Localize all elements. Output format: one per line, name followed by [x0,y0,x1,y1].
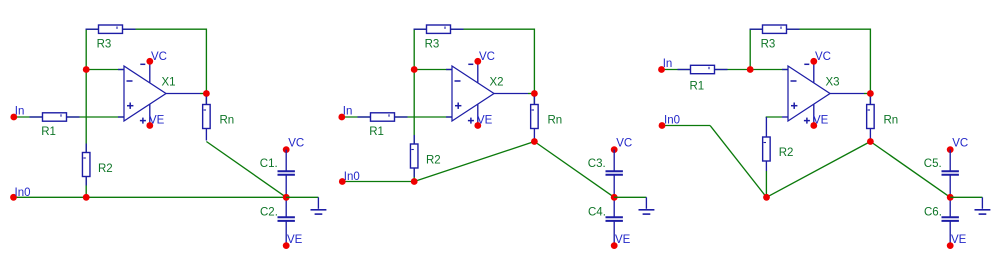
op-amp X3 plus sign at VE pin [804,120,810,122]
VC supply node dot above C3 [611,146,618,153]
svg-text:In0: In0 [664,114,680,126]
capacitor C2 [285,197,287,217]
svg-text:R2: R2 [98,163,113,175]
capacitor junction node dot (circuit 2) [611,194,618,201]
svg-text:C3.: C3. [588,158,606,170]
svg-text:C4.: C4. [588,207,606,219]
svg-text:In0: In0 [344,171,360,183]
svg-text:VC: VC [952,138,968,150]
op-amp X2 plus sign at VE pin [468,120,474,122]
VC supply node dot of X1 [146,58,153,65]
wire: feedback node to inverting input (circuit 3) [750,69,788,71]
resistor R1 (circuit 3) [678,69,691,71]
ground symbol (circuit 1) [317,197,319,209]
svg-text:R2: R2 [426,155,441,167]
wire: In port through R1 to non-inverting input (circuit 1) [14,116,124,118]
svg-text:VC: VC [288,138,304,150]
ground symbol (circuit 3) [981,197,983,209]
wire junction to ground (circuit 2) [614,196,646,198]
output node dot (circuit 3) [867,90,874,97]
svg-text:In: In [663,58,673,70]
ground symbol (circuit 2) [645,197,647,209]
op-amp X3 VE supply pin [813,105,815,126]
VC supply node dot of X2 [474,58,481,65]
capacitor junction node dot (circuit 3) [947,194,954,201]
junction dot at Rn bottom (circuit 2) [531,138,538,145]
feedback node dot (circuit 1) [83,66,90,73]
op-amp X1 [124,66,166,121]
op-amp X2 inverting input pin stub [446,69,452,71]
op-amp X1 VC supply pin [149,61,151,82]
In0 port dot (circuit 2) [339,178,346,185]
svg-text:C2.: C2. [260,207,278,219]
resistor R2 (circuit 2) [413,135,415,144]
svg-text:R3: R3 [425,39,440,51]
VE supply node dot below C4 [611,242,618,249]
VE supply node dot below C2 [283,242,290,249]
svg-text:C1.: C1. [260,158,278,170]
op-amp X2 VE supply pin [477,105,479,126]
wire: In0 row (circuit 1) [14,196,287,198]
svg-text:VE: VE [477,115,493,127]
svg-text:VE: VE [287,234,303,246]
svg-text:VE: VE [149,115,165,127]
In0 port dot (circuit 1) [10,194,17,201]
svg-text:VE: VE [951,234,967,246]
svg-text:VC: VC [479,51,495,63]
op-amp X2 [452,66,494,121]
op-amp X3 minus sign at VC pin [804,63,809,65]
VC supply node dot of X3 [810,58,817,65]
svg-text:C5.: C5. [924,158,942,170]
resistor R3 (circuit 2) [414,28,427,30]
svg-text:R3: R3 [97,39,112,51]
svg-text:VE: VE [813,115,829,127]
VC supply node dot above C5 [947,146,954,153]
svg-text:R1: R1 [690,81,705,93]
output node dot (circuit 1) [203,90,210,97]
op-amp X1 plus sign inside [127,105,133,107]
op-amp X2 VC supply pin [477,61,479,82]
op-amp X3 [788,66,830,121]
resistor R2 (circuit 1) [85,144,87,153]
op-amp X1 minus sign inside [127,80,133,82]
op-amp X1 VE supply pin [149,105,151,126]
resistor Rn (circuit 2) [533,97,535,105]
svg-text:VC: VC [815,51,831,63]
op-amp X3 inverting input pin stub [782,69,788,71]
op-amp X3 plus sign inside [791,105,797,107]
svg-text:VC: VC [151,51,167,63]
wire: feedback node to inverting input (circuit 2) [414,69,452,71]
wire: Rn bottom diagonal to capacitor junction (circuit 1) [206,142,286,198]
VE supply node dot of X1 [146,122,153,129]
op-amp X2 non-inverting input pin stub [446,116,452,118]
resistor R3 (circuit 3) [750,28,763,30]
op-amp X1 plus sign at VE pin [140,120,146,122]
svg-text:X2: X2 [490,77,504,89]
wire: In0 to R2 bottom junction (circuit 2) [342,181,414,183]
op-amp X1 non-inverting input pin stub [118,116,124,118]
junction dot R2 bottom / In0 row (circuit 1) [83,194,90,201]
In port dot (circuit 3) [658,66,665,73]
feedback node dot (circuit 3) [747,66,754,73]
op-amp X3 non-inverting input pin stub [782,116,788,118]
wire: Rn bottom diagonal to capacitor junction (circuit 2) [534,142,614,198]
svg-text:R2: R2 [779,147,794,159]
resistor Rn (circuit 3) [869,97,871,105]
wire: output pin to output node (circuit 3) [864,93,870,95]
resistor R1 (circuit 1) [30,116,43,118]
svg-text:In: In [15,105,25,117]
wire: top feedback rail and right rail down to output node (circuit 3) [750,29,870,104]
wire: top feedback rail and right rail down to output node (circuit 2) [414,29,534,104]
wire: In port through R1 to feedback node (circuit 3) [662,69,751,71]
op-amp X2 minus sign at VC pin [468,63,473,65]
svg-text:R1: R1 [41,126,56,138]
svg-text:R1: R1 [369,126,384,138]
wire: left rail from R3 down to In0 row (circuit 1) [85,29,87,197]
wire junction to ground (circuit 1) [286,196,318,198]
VE supply node dot of X3 [810,122,817,129]
op-amp X2 minus sign inside [455,80,461,82]
svg-text:X3: X3 [826,77,840,89]
VE supply node dot of X2 [474,122,481,129]
wire: output pin to output node (circuit 2) [528,93,534,95]
In0 port dot (circuit 3) [659,122,666,129]
op-amp X1 minus sign at VC pin [140,63,145,65]
feedback node dot (circuit 2) [411,66,418,73]
wire: Rn bottom diagonal to capacitor junction (circuit 3) [870,142,950,198]
op-amp X1 output pin stub [166,93,200,95]
op-amp X2 plus sign inside [455,105,461,107]
output node dot (circuit 2) [531,90,538,97]
resistor R2 (circuit 3) [765,136,767,138]
svg-text:X1: X1 [162,77,176,89]
svg-text:R3: R3 [761,39,776,51]
svg-text:Rn: Rn [220,115,235,127]
resistor R1 (circuit 2) [358,116,371,118]
capacitor C3 [613,150,615,172]
VE supply node dot below C6 [947,242,954,249]
junction dot R2 bottom / In0 (circuit 2) [411,178,418,185]
svg-text:Rn: Rn [548,115,563,127]
wire: top feedback rail and right rail down to output node (circuit 1) [86,29,206,104]
capacitor C5 [949,150,951,172]
wire: diagonal R2 junction up to Rn bottom (circuit 2) [414,142,534,182]
wire: feedback node to inverting input (circuit 1) [86,69,124,71]
wire: In port through R1 to non-inverting input (circuit 2) [342,116,452,118]
wire: R2 bottom to bottom junction (circuit 3) [765,171,767,197]
svg-text:C6.: C6. [924,207,942,219]
resistor Rn (circuit 1) [205,97,207,105]
svg-text:Rn: Rn [884,115,899,127]
svg-text:VE: VE [615,234,631,246]
capacitor C6 [949,197,951,217]
wire: R2 top to non-inverting input (circuit 3) [766,117,782,118]
junction dot at Rn bottom (circuit 3) [867,138,874,145]
wire: In0 horizontal segment (circuit 3) [662,125,710,127]
VC supply node dot above C1 [283,146,290,153]
wire: left rail from R3 down to feedback node (circuit 3) [749,29,751,69]
bottom junction dot (circuit 3) [763,194,770,201]
capacitor C1 [285,150,287,172]
capacitor C4 [613,197,615,217]
svg-text:VC: VC [616,138,632,150]
wire: In0 diagonal down to bottom junction (circuit 3) [710,126,766,198]
op-amp X3 VC supply pin [813,61,815,82]
op-amp X1 inverting input pin stub [118,69,124,71]
wire: bottom junction diagonal up to Rn bottom (circuit 3) [767,142,871,198]
wire junction to ground (circuit 3) [950,196,982,198]
svg-text:In: In [343,105,353,117]
resistor R3 (circuit 1) [86,28,99,30]
wire: left rail from R3 down to R2 and In0 junction (circuit 2) [413,29,415,181]
wire: output pin to output node (circuit 1) [200,93,206,95]
capacitor junction node dot (circuit 1) [283,194,290,201]
op-amp X3 minus sign inside [791,80,797,82]
svg-text:In0: In0 [15,187,31,199]
In port dot (circuit 1) [10,114,17,121]
op-amp X3 output pin stub [830,93,864,95]
op-amp X2 output pin stub [494,93,528,95]
In port dot (circuit 2) [338,114,345,121]
